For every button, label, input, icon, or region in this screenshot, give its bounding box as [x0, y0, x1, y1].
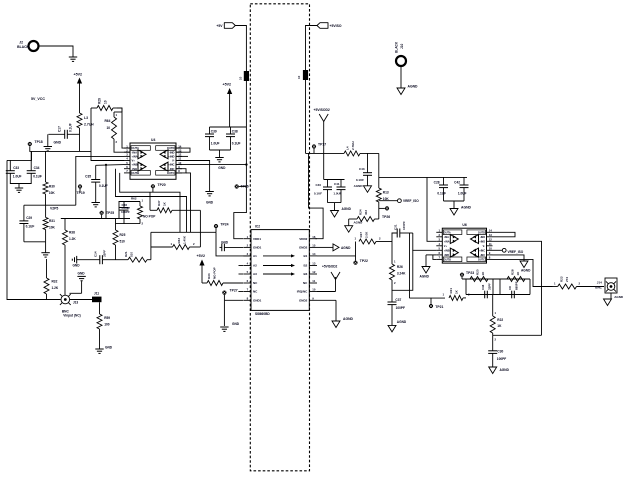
inductor L3: [77, 113, 94, 151]
svg-text:AGND: AGND: [354, 184, 364, 188]
resistor R22: [490, 311, 503, 342]
svg-text:R24: R24: [359, 209, 363, 215]
svg-text:R34: R34: [207, 273, 211, 279]
capacitor C40: [314, 180, 332, 203]
svg-text:R25: R25: [120, 233, 126, 237]
resistor R20: [470, 269, 488, 281]
resistor R30: [43, 182, 55, 205]
wire +INB row: [96, 164, 124, 167]
svg-text:V-: V-: [172, 159, 175, 163]
resistor R34 (NO POP): [202, 267, 243, 285]
wire OUTD/-IND loop: [176, 148, 190, 152]
svg-text:1.0UF: 1.0UF: [458, 192, 467, 196]
svg-text:R21: R21: [449, 288, 453, 294]
analog ground AGND (C37): [388, 320, 407, 332]
wire fb mid post1: [492, 279, 494, 295]
svg-text:12: 12: [489, 238, 493, 242]
svg-text:-INA: -INA: [444, 236, 449, 239]
svg-text:11: 11: [312, 279, 315, 283]
svg-text:C39: C39: [211, 130, 217, 134]
svg-text:AGND: AGND: [461, 206, 472, 210]
svg-text:0.1UF: 0.1UF: [356, 178, 364, 182]
svg-text:R23: R23: [560, 276, 564, 282]
wire +INC to +5V2 rail: [176, 164, 246, 166]
svg-text:VDD2: VDD2: [299, 237, 307, 241]
svg-text:GND1: GND1: [253, 246, 262, 250]
svg-text:VDD1: VDD1: [253, 237, 261, 241]
svg-text:+5VISO: +5VISO: [330, 24, 342, 28]
analog ground AGND (U6 -INC): [520, 261, 531, 273]
svg-text:-INA: -INA: [132, 150, 138, 154]
wire iso rail: [306, 152, 345, 154]
svg-text:+INB: +INB: [444, 249, 450, 252]
wire fb mid post2: [499, 279, 501, 295]
test point TP17: [312, 143, 326, 154]
ground (pin8): [220, 322, 240, 331]
svg-text:+IND: +IND: [168, 155, 174, 159]
capacitor C38: [226, 127, 241, 150]
capacitor C42: [454, 177, 468, 201]
resistor R38: [63, 219, 77, 300]
svg-text:NO POP: NO POP: [143, 215, 156, 219]
power +5V2 arrow (mid): [223, 83, 233, 128]
capacitor C41: [333, 180, 345, 203]
capacitor C29: [19, 205, 34, 242]
test point TP22: [353, 256, 368, 265]
wire +IND stub: [176, 155, 188, 157]
svg-text:C35: C35: [85, 175, 91, 179]
svg-text:14: 14: [312, 252, 316, 256]
svg-text:AGND: AGND: [521, 269, 531, 273]
wire TP24 net: [151, 231, 216, 233]
svg-text:TP18: TP18: [35, 140, 43, 144]
svg-text:11: 11: [489, 242, 492, 246]
power tap +5VISOD2 (top): [314, 108, 330, 180]
resistor R62 (NO POP): [131, 197, 156, 226]
wire +IND to loop: [493, 241, 542, 335]
svg-text:+5V2: +5V2: [197, 254, 206, 258]
svg-text:TP22: TP22: [360, 259, 368, 263]
wire to C33 rail: [7, 151, 32, 160]
connector J11 (jumper): [92, 292, 102, 303]
svg-text:0.1UF: 0.1UF: [314, 192, 322, 196]
svg-text:1K: 1K: [497, 324, 502, 328]
wire +5V rail lower: [234, 81, 247, 239]
svg-text:0.1UF: 0.1UF: [99, 184, 108, 188]
capacitor C28: [434, 177, 448, 201]
wire R22 loop: [493, 334, 542, 336]
wire NC pin7 stub: [238, 291, 243, 293]
resistor R28: [507, 269, 525, 281]
svg-text:GND1: GND1: [253, 299, 262, 303]
svg-text:AGND: AGND: [408, 85, 419, 89]
svg-text:10: 10: [489, 247, 493, 251]
svg-text:C17: C17: [58, 126, 62, 132]
svg-text:GND: GND: [54, 141, 62, 145]
svg-text:IC2: IC2: [255, 225, 260, 229]
svg-text:510: 510: [130, 252, 134, 257]
svg-text:B1: B1: [303, 254, 307, 258]
svg-text:10: 10: [104, 100, 108, 104]
wire +5V2 cap rail: [210, 126, 247, 128]
svg-text:OUTC: OUTC: [478, 259, 485, 262]
junction +INB: [105, 164, 107, 166]
wire R33 right up: [199, 210, 201, 247]
analog ground AGND (C40/C41): [331, 207, 352, 217]
wire A2 stub: [239, 265, 244, 267]
svg-text:100PF: 100PF: [396, 306, 405, 310]
wire J10 to AGND: [400, 66, 402, 88]
wire BNC to J11: [70, 299, 92, 301]
node VREF_ISO (right): [493, 248, 524, 253]
svg-text:OUTB: OUTB: [444, 259, 451, 262]
ground (BNC shield): [70, 272, 86, 294]
ground (C35): [92, 199, 100, 207]
svg-text:J13: J13: [73, 300, 79, 304]
node VREF_ISO (left): [398, 199, 420, 203]
svg-text:R62: R62: [131, 197, 137, 201]
power +5V2 arrow (left): [74, 73, 83, 114]
svg-text:C14: C14: [94, 251, 98, 257]
svg-text:GND2: GND2: [299, 246, 308, 250]
svg-text:VREF_ISO: VREF_ISO: [508, 250, 524, 254]
svg-text:R21: R21: [124, 251, 128, 257]
svg-text:SI8660BD: SI8660BD: [255, 312, 270, 316]
wire +5V rail upper: [235, 26, 246, 72]
svg-text:GND: GND: [221, 241, 229, 245]
resistor R31: [43, 205, 55, 242]
svg-text:R26: R26: [397, 265, 403, 269]
svg-text:+INA: +INA: [132, 155, 138, 159]
svg-text:TP21: TP21: [435, 305, 443, 309]
svg-text:AGND: AGND: [354, 221, 364, 225]
capacitor C17: [48, 123, 79, 139]
wire OUTB to -INB: [433, 255, 436, 260]
svg-text:C42: C42: [454, 181, 460, 185]
svg-text:+5V: +5V: [216, 24, 223, 28]
analog ground AGND (R24): [345, 219, 363, 232]
analog ground AGND (C43): [354, 184, 372, 193]
svg-text:C33: C33: [13, 166, 19, 170]
svg-text:100: 100: [104, 323, 110, 327]
svg-text:AGND: AGND: [614, 295, 624, 299]
svg-text:33PF: 33PF: [103, 250, 107, 257]
analog ground AGND (U6 -INB): [420, 255, 437, 279]
svg-text:IRQ/NC: IRQ/NC: [297, 290, 308, 294]
wire OUTC/-INC loop: [176, 169, 186, 173]
test point TP27: [222, 289, 237, 301]
wire V- to GND: [176, 161, 210, 192]
svg-text:B3: B3: [303, 272, 307, 276]
svg-text:510: 510: [120, 240, 126, 244]
svg-text:V+: V+: [444, 245, 448, 248]
test point TP19: [77, 184, 85, 194]
svg-text:C34: C34: [34, 166, 40, 170]
svg-text:R27: R27: [359, 232, 363, 238]
svg-text:R20: R20: [476, 269, 480, 275]
label 5V_VCC: [31, 97, 45, 101]
test point TP26: [379, 206, 390, 219]
test point TP24: [214, 223, 229, 233]
svg-text:+5VISOD2: +5VISOD2: [322, 264, 338, 268]
svg-text:J10: J10: [400, 43, 404, 49]
wire C31 out down: [409, 233, 411, 298]
test point TP16: [235, 184, 249, 188]
svg-text:C30: C30: [497, 349, 503, 353]
test point TP20: [151, 183, 166, 192]
svg-text:R22: R22: [497, 318, 503, 322]
power +5V2 arrow (R34): [197, 254, 206, 283]
svg-text:GND2: GND2: [299, 299, 308, 303]
wire +INA: [76, 156, 124, 205]
svg-text:C37: C37: [395, 298, 401, 302]
svg-text:0.1UF: 0.1UF: [69, 123, 73, 132]
wire TP24 to A1: [216, 232, 251, 256]
svg-text:1.2K: 1.2K: [69, 237, 76, 241]
wire C36 block top: [119, 202, 140, 219]
svg-text:C38: C38: [232, 130, 238, 134]
svg-text:R64: R64: [105, 119, 111, 123]
svg-text:+INA: +INA: [444, 240, 450, 243]
ground (U4 V-): [205, 192, 213, 205]
wire -INB loop: [116, 169, 187, 233]
capacitor C30: [488, 335, 506, 367]
svg-text:13: 13: [489, 233, 493, 237]
svg-text:10: 10: [239, 76, 243, 80]
svg-text:R31: R31: [49, 219, 55, 223]
test point TP23: [460, 271, 474, 279]
capacitor C16: [481, 283, 492, 298]
svg-text:GND: GND: [72, 264, 80, 268]
svg-text:V2P5: V2P5: [50, 206, 58, 210]
resistor R25: [113, 219, 126, 260]
svg-text:AGND: AGND: [342, 207, 352, 211]
wire +5VISO rail upper: [306, 26, 318, 71]
resistor R29: [91, 98, 117, 111]
wire L4 node down: [378, 153, 380, 177]
wire +INB drop: [105, 165, 107, 219]
connector J14 BNC output: [595, 278, 617, 293]
svg-text:A2: A2: [253, 264, 257, 268]
wire A3 stub: [239, 273, 244, 275]
svg-text:U6: U6: [462, 223, 466, 227]
op-amp U6 (quad): [436, 223, 492, 263]
svg-text:-INB: -INB: [444, 254, 449, 257]
svg-text:GND: GND: [105, 345, 113, 349]
capacitor C8: [508, 281, 519, 298]
svg-text:+5V2: +5V2: [74, 73, 83, 77]
wire C31 out to +INB: [413, 233, 437, 250]
svg-text:R37: R37: [157, 200, 161, 206]
svg-text:-INC: -INC: [480, 254, 485, 257]
svg-text:-IND: -IND: [480, 236, 485, 239]
ground (R31): [41, 242, 49, 257]
svg-text:0.1UF: 0.1UF: [437, 192, 446, 196]
wire C29 bottom: [24, 241, 46, 243]
wire rail to R30: [45, 151, 47, 182]
resistor R33: [151, 235, 201, 249]
capacitor C37: [388, 298, 406, 325]
wire R21b row: [410, 297, 446, 299]
svg-text:VREF_ISO: VREF_ISO: [403, 199, 419, 203]
svg-text:10: 10: [107, 126, 111, 130]
svg-text:R29: R29: [98, 98, 102, 104]
ground (J2): [69, 57, 77, 61]
svg-text:C40: C40: [315, 183, 321, 187]
svg-text:J11: J11: [94, 292, 99, 296]
svg-text:-IND: -IND: [169, 150, 175, 154]
svg-text:TP27: TP27: [230, 289, 238, 293]
resistor R23: [553, 276, 605, 289]
wire to U6 +INA: [427, 177, 436, 241]
wire R27 node up: [392, 233, 397, 242]
svg-text:C29: C29: [26, 216, 32, 220]
wire fb row: [462, 278, 530, 280]
svg-text:V-: V-: [483, 245, 486, 248]
svg-text:3.24K: 3.24K: [397, 272, 406, 276]
svg-text:402: 402: [364, 210, 368, 215]
ground (C33/C34): [15, 184, 23, 193]
wire C33/C34 bottoms: [10, 180, 31, 184]
wire +INB line down to R26 node: [392, 250, 413, 290]
wire C28/C42 bottoms: [444, 201, 465, 209]
junction (+INC/+5V rail): [245, 163, 247, 165]
inductor L4: [344, 141, 379, 155]
wire C36 block bottom: [116, 223, 141, 225]
resistor R13: [376, 177, 389, 219]
wire left bracket: [7, 160, 61, 299]
svg-text:14: 14: [489, 229, 493, 233]
svg-text:GND: GND: [206, 201, 214, 205]
wire J2 to ground: [39, 46, 73, 57]
svg-text:R59: R59: [104, 316, 110, 320]
wire C40/C41 bottom rail: [328, 203, 342, 211]
svg-text:GND: GND: [232, 322, 240, 326]
ground (C17): [44, 134, 62, 151]
svg-text:R13: R13: [383, 191, 389, 195]
svg-text:2.0K: 2.0K: [365, 231, 369, 238]
svg-text:TP26: TP26: [382, 215, 390, 219]
svg-text:R28: R28: [511, 269, 515, 275]
node V2P5: [24, 205, 76, 210]
resistor R24: [349, 209, 379, 221]
capacitor (GND1 pin2): [220, 241, 244, 252]
svg-text:NO POP: NO POP: [213, 267, 217, 279]
svg-text:+5VISOD2: +5VISOD2: [314, 108, 330, 112]
wire R29 left to V+ pin: [91, 108, 124, 161]
svg-text:L4: L4: [346, 146, 350, 150]
svg-text:TP19: TP19: [77, 191, 85, 195]
svg-text:Vinput (NC): Vinput (NC): [63, 314, 80, 318]
resistor R21 (510): [115, 251, 151, 262]
wire OUTC drop: [186, 173, 191, 232]
svg-text:100PF: 100PF: [402, 221, 406, 230]
svg-text:A3: A3: [253, 272, 257, 276]
svg-text:0.1UF: 0.1UF: [33, 174, 42, 178]
test point TP21: [429, 298, 444, 309]
svg-text:AGND: AGND: [341, 246, 351, 250]
svg-text:10: 10: [297, 75, 301, 79]
wire OUTC out: [493, 259, 553, 286]
svg-text:+INB: +INB: [132, 163, 138, 167]
svg-text:C43: C43: [359, 167, 365, 171]
wire TP25 rail: [61, 218, 130, 220]
connector J13 BNC input: [60, 294, 81, 317]
wire R29 right to U4 pin1: [117, 108, 130, 148]
svg-text:J14: J14: [597, 281, 602, 285]
svg-text:GND: GND: [78, 272, 86, 276]
connector J10 (banana jack, BLACK): [395, 41, 407, 66]
svg-text:10K: 10K: [49, 191, 56, 195]
svg-text:100PF: 100PF: [497, 357, 506, 361]
svg-text:TP17: TP17: [318, 143, 326, 147]
svg-text:13: 13: [312, 262, 316, 266]
svg-text:R30: R30: [49, 185, 55, 189]
svg-text:A1: A1: [253, 254, 257, 258]
capacitor C14: [77, 250, 115, 265]
capacitor C43: [356, 153, 372, 185]
resistor R27: [354, 231, 392, 244]
svg-text:C31: C31: [393, 224, 397, 230]
svg-text:+INC: +INC: [479, 249, 485, 252]
wire fb right post: [529, 279, 531, 295]
digital isolator IC2: [243, 225, 317, 316]
svg-text:680PF: 680PF: [515, 281, 519, 290]
svg-text:2.7UH: 2.7UH: [84, 123, 94, 127]
svg-text:1.0UF: 1.0UF: [13, 174, 22, 178]
svg-text:0.1UF: 0.1UF: [26, 224, 35, 228]
svg-text:15: 15: [312, 244, 316, 248]
wire fb left post: [465, 279, 467, 295]
capacitor C35: [85, 165, 108, 199]
resistor R32: [44, 259, 59, 300]
ground (R59): [95, 345, 112, 353]
resistor R26: [390, 242, 407, 303]
wire R64 to -INA: [114, 139, 130, 152]
svg-text:AGND: AGND: [343, 317, 354, 321]
svg-text:V+: V+: [132, 159, 136, 163]
svg-text:GND: GND: [218, 166, 226, 170]
analog ground AGND (C28/C42): [450, 206, 472, 216]
svg-text:+5V2: +5V2: [223, 83, 232, 87]
wire +5VISO rail lower: [305, 80, 307, 153]
wire R37 left to TP20 net: [149, 192, 151, 210]
wire C40/C41 top rail: [324, 179, 345, 181]
test point TP25: [100, 211, 115, 219]
svg-text:10K: 10K: [49, 225, 56, 229]
svg-text:C16: C16: [481, 284, 485, 290]
wire node to R22: [492, 295, 494, 317]
svg-text:5V_VCC: 5V_VCC: [31, 97, 45, 101]
capacitor C39: [205, 127, 220, 150]
svg-text:274: 274: [565, 277, 569, 282]
wire TP27 to GND1 pin8: [224, 299, 243, 301]
wire +5VISO rail to VDD2: [309, 153, 324, 238]
svg-text:TP23: TP23: [466, 271, 474, 275]
svg-text:C28: C28: [434, 181, 440, 185]
power flag +5V: [216, 23, 235, 29]
svg-text:U4: U4: [151, 138, 155, 142]
isolation barrier (dashed box): [250, 4, 309, 471]
capacitor C36 (CDNP NO POP): [120, 202, 131, 224]
resistor R64: [105, 108, 123, 144]
svg-text:R32: R32: [52, 279, 58, 283]
ferrite bead (right): [297, 70, 308, 80]
wire iso vcc rail: [379, 176, 467, 178]
svg-text:L3: L3: [84, 116, 88, 120]
resistor R59: [97, 302, 110, 349]
svg-text:+INC: +INC: [168, 163, 174, 167]
